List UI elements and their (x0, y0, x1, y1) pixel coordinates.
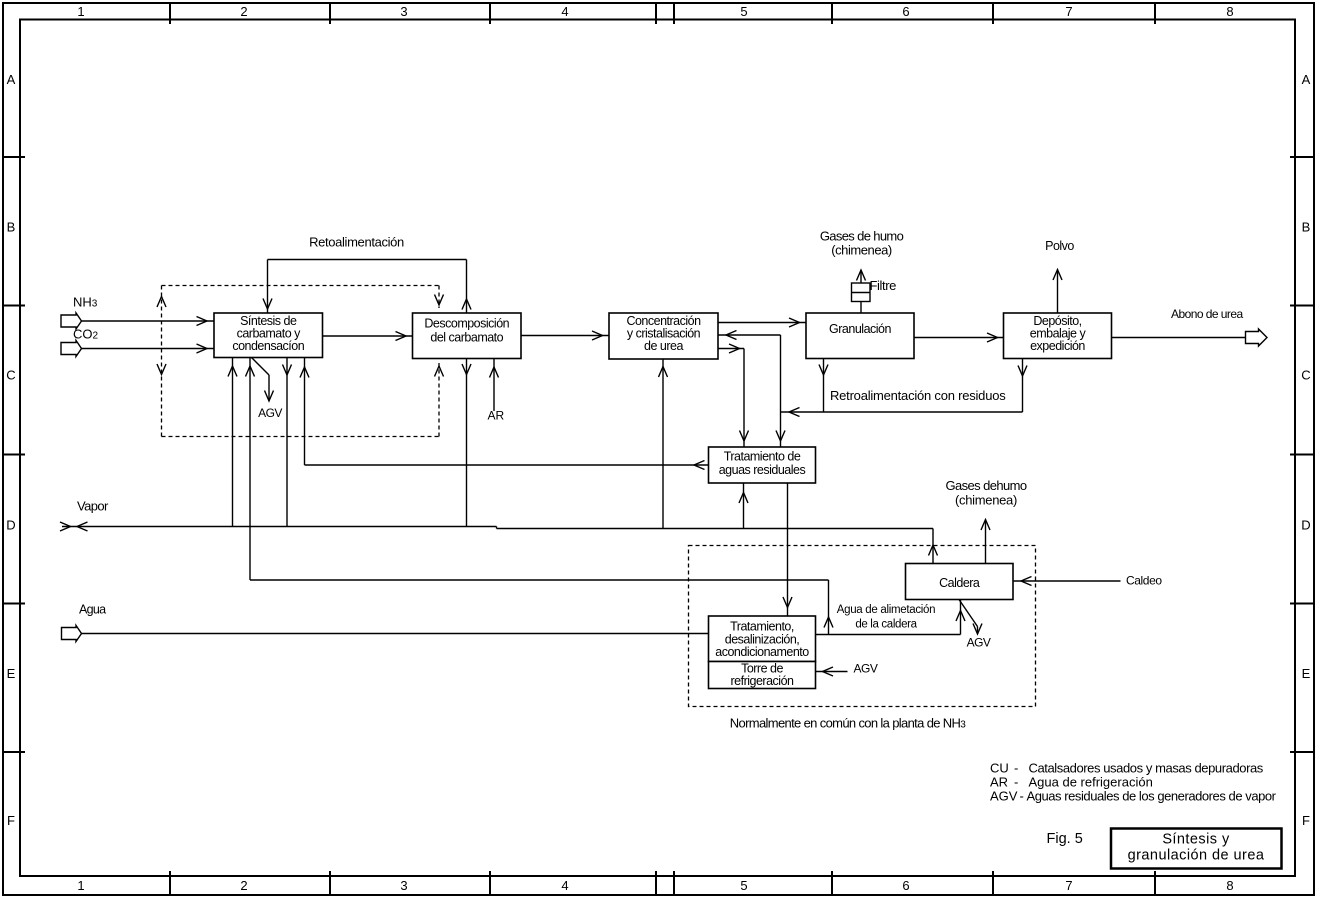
svg-text:-: - (1014, 775, 1018, 790)
wire Deposito up to Polvo (1053, 270, 1062, 314)
Gases de humo (chimenea) label (820, 229, 904, 258)
wire Granulacion up to filter and chimney arrow (857, 270, 866, 313)
svg-text:1: 1 (77, 4, 84, 19)
wire treated water up into Sintesis (v4) (300, 358, 309, 466)
svg-text:4: 4 (561, 878, 568, 893)
svg-text:condensacíon: condensacíon (232, 339, 304, 353)
wire AGV into Torre de refrigeracion (816, 667, 848, 676)
svg-text:del carbamato: del carbamato (430, 331, 503, 345)
svg-text:Caldera: Caldera (939, 576, 980, 590)
wire AGV blowdown from Caldera (959, 600, 982, 635)
svg-text:D: D (1301, 518, 1310, 533)
svg-text:Caldeo: Caldeo (1126, 574, 1162, 588)
svg-text:Agua de refrigeración: Agua de refrigeración (1029, 775, 1153, 790)
left zone letters A-F (6, 72, 15, 828)
bottom zone numbers 1-8 (77, 878, 1233, 893)
svg-text:AR: AR (488, 409, 505, 423)
svg-text:(chimenea): (chimenea) (955, 493, 1017, 508)
svg-text:Descomposición: Descomposición (424, 317, 509, 331)
wire Concentracion to Granulacion (718, 318, 806, 327)
svg-text:Vapor: Vapor (77, 499, 109, 514)
wire Caldera chimney up (981, 520, 990, 564)
wire vapor up into Tratamiento aguas residuales (739, 483, 748, 529)
process box: Caldera (906, 564, 1014, 600)
bottom zone tick marks (170, 871, 1155, 894)
wire Granulacion down to residue line (819, 359, 828, 413)
svg-text:8: 8 (1226, 4, 1233, 19)
wire CO2 to Sintesis (82, 348, 215, 350)
process box: Concentracion y cristalisacion de urea (609, 313, 718, 359)
svg-text:4: 4 (561, 4, 568, 19)
right zone letters A-F (1301, 72, 1310, 828)
wire vapor up into Concentracion (659, 359, 668, 529)
svg-text:Normalmente en común con la pl: Normalmente en común con la planta de NH… (730, 716, 967, 731)
svg-text:AGV: AGV (967, 636, 991, 650)
wire waste water treatment to Sintesis recycle (305, 461, 709, 470)
legend line AR (990, 775, 1153, 790)
svg-text:C: C (6, 368, 15, 383)
svg-text:Agua: Agua (79, 603, 106, 617)
Abono de urea hollow block arrow (1246, 329, 1268, 346)
dashed boundary box around synthesis section (162, 286, 440, 437)
wire Sintesis to Descomposicion (323, 332, 413, 341)
svg-text:AGV: AGV (258, 406, 282, 420)
wire NH3 to Sintesis (82, 320, 215, 322)
Agua hollow block arrow (62, 625, 82, 641)
svg-text:A: A (1302, 72, 1311, 87)
drawing title box (1111, 829, 1282, 869)
Agua de alimetacion de la caldera label (837, 604, 936, 631)
svg-text:-: - (1020, 789, 1024, 804)
svg-text:B: B (1302, 220, 1311, 235)
svg-text:-: - (1014, 761, 1018, 776)
wire AR into Descomposicion (490, 359, 499, 412)
legend line AGV (990, 789, 1277, 804)
svg-text:Aguas residuales de los genera: Aguas residuales de los generadores de v… (1027, 789, 1277, 804)
process box: Tratamiento de aguas residuales (709, 447, 816, 483)
svg-text:7: 7 (1065, 878, 1072, 893)
process box: Torre de refrigeracion (709, 662, 816, 689)
wire Descomposicion down to vapor line (462, 359, 471, 527)
legend line CU (990, 761, 1264, 776)
svg-text:6: 6 (902, 878, 909, 893)
svg-text:F: F (7, 813, 15, 828)
svg-text:E: E (1302, 666, 1311, 681)
svg-text:3: 3 (400, 4, 407, 19)
wire Deposito down to residue line (1018, 359, 1027, 413)
wire Descomposicion to Concentracion (521, 331, 609, 340)
process box: Granulacion (806, 313, 914, 359)
svg-text:E: E (7, 666, 16, 681)
dashed boundary box around boiler section (Normalmente en comun...) (689, 546, 1036, 707)
svg-text:B: B (7, 220, 16, 235)
svg-text:granulación de urea: granulación de urea (1128, 848, 1265, 864)
filter symbol (852, 283, 871, 302)
svg-text:(chimenea): (chimenea) (831, 243, 892, 258)
svg-text:A: A (7, 72, 16, 87)
svg-text:F: F (1302, 813, 1310, 828)
wire vapor header (60, 522, 933, 531)
dashed arrow into Descomposicion top (435, 295, 444, 306)
svg-text:CU: CU (990, 761, 1009, 776)
process box: Deposito, embalaje y expedicion (1004, 313, 1112, 359)
svg-text:Síntesis y: Síntesis y (1162, 832, 1230, 848)
svg-text:AR: AR (990, 775, 1008, 790)
svg-text:de urea: de urea (644, 339, 683, 353)
svg-text:3: 3 (400, 878, 407, 893)
dashed arrow into Descomposicion bottom (435, 366, 444, 377)
svg-text:Retoalimentación: Retoalimentación (309, 235, 404, 250)
top zone tick marks (170, 4, 1155, 24)
svg-text:acondicionamento: acondicionamento (715, 645, 809, 659)
svg-text:2: 2 (240, 878, 247, 893)
wire Deposito to output (1112, 337, 1246, 339)
Gases dehumo (chimenea) label (946, 478, 1027, 508)
svg-text:7: 7 (1065, 4, 1072, 19)
svg-text:Tratamiento,: Tratamiento, (730, 620, 794, 634)
svg-text:Agua de alimetación: Agua de alimetación (837, 604, 936, 616)
wire AGV out of Sintesis (252, 358, 274, 402)
wire Concentracion to waste water treatment (718, 344, 749, 447)
top zone numbers 1-8 (77, 4, 1233, 19)
dashed arrow down on left dashed edge (157, 364, 166, 375)
dashed arrow up on left dashed edge (157, 297, 166, 308)
svg-text:Granulación: Granulación (829, 322, 891, 336)
svg-text:8: 8 (1226, 878, 1233, 893)
wire vapor up into Sintesis (v1) (228, 358, 237, 527)
svg-text:Gases dehumo: Gases dehumo (946, 478, 1027, 493)
svg-text:D: D (6, 518, 15, 533)
svg-text:expedición: expedición (1030, 339, 1085, 353)
wire Caldeo into Caldera (1013, 577, 1121, 586)
svg-text:refrigeración: refrigeración (731, 674, 795, 688)
svg-text:2: 2 (240, 4, 247, 19)
svg-text:5: 5 (740, 878, 747, 893)
svg-text:aguas residuales: aguas residuales (719, 463, 806, 477)
svg-text:Fig. 5: Fig. 5 (1047, 831, 1083, 847)
svg-text:6: 6 (902, 4, 909, 19)
wire Tratamiento aguas down to desalinizacion (783, 483, 792, 616)
left zone tick marks (3, 157, 25, 752)
wire Agua to desalinizacion (82, 633, 709, 635)
svg-text:Catalsadores usados y masas de: Catalsadores usados y masas depuradoras (1029, 761, 1264, 776)
wire Caldera up to vapor header (929, 529, 938, 564)
CO2 hollow block arrow (61, 340, 82, 356)
svg-text:de la caldera: de la caldera (855, 619, 917, 631)
svg-text:Filtre: Filtre (870, 278, 897, 293)
right zone tick marks (1290, 157, 1314, 752)
svg-text:AGV: AGV (990, 789, 1018, 804)
svg-text:1: 1 (77, 878, 84, 893)
svg-text:AGV: AGV (854, 662, 878, 676)
wire residue return line (781, 408, 1023, 417)
svg-text:C: C (1301, 368, 1310, 383)
wire boiler water to Sintesis (v2 long) (246, 358, 834, 635)
process box: Tratamiento desalinizacion acondicionamento (709, 616, 816, 662)
svg-text:Tratamiento de: Tratamiento de (724, 450, 801, 464)
wire Granulacion to Deposito (914, 333, 1004, 342)
svg-text:Retroalimentación con residuos: Retroalimentación con residuos (830, 388, 1006, 403)
svg-text:5: 5 (740, 4, 747, 19)
svg-text:Gases de humo: Gases de humo (820, 229, 904, 244)
wire recycle into Concentracion (from vertical) (718, 331, 785, 448)
svg-text:Polvo: Polvo (1045, 239, 1074, 253)
wire Sintesis down to vapor line (v3) (283, 358, 292, 527)
svg-text:Abono de urea: Abono de urea (1171, 307, 1243, 321)
wire boiler feed water to Caldera (816, 600, 966, 635)
NH3 hollow block arrow (61, 313, 82, 329)
process box: Sintesis de carbamato y condensacion (214, 313, 323, 358)
wire feedback loop Descomposicion to Sintesis (263, 260, 471, 314)
process box: Descomposicion del carbamato (413, 313, 522, 359)
